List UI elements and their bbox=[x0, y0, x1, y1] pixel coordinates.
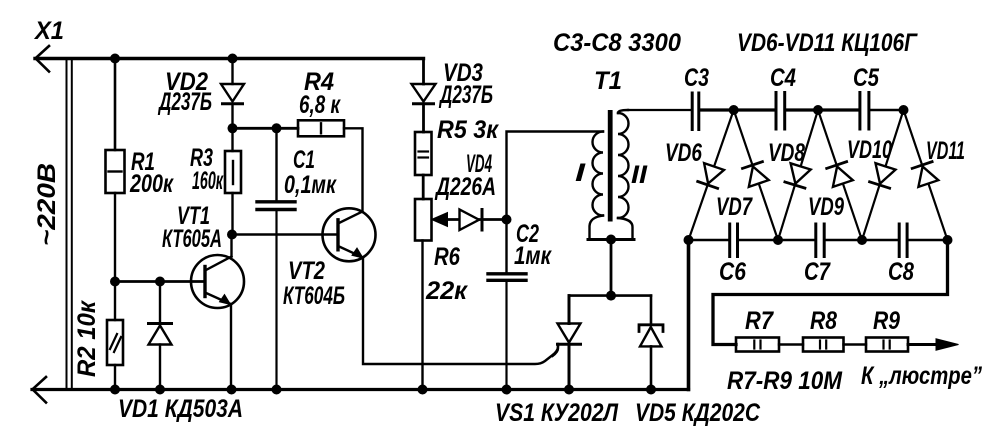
node VD1 top bbox=[155, 277, 165, 287]
svg-text:II: II bbox=[631, 161, 648, 189]
wire second rail bbox=[233, 127, 299, 130]
wire top rail bbox=[35, 57, 424, 60]
resistor R3 bbox=[225, 128, 241, 234]
capacitor C7 bbox=[816, 224, 824, 257]
wire bottom rail bbox=[32, 388, 689, 391]
svg-text:Д237Б: Д237Б bbox=[439, 81, 493, 109]
node A1 bbox=[729, 105, 739, 115]
wire output arrow bbox=[908, 343, 940, 346]
wire diagonal A2-B1 bbox=[778, 110, 818, 240]
diode VD9 bbox=[827, 162, 853, 187]
node R1-R2 bbox=[110, 277, 120, 287]
node rail VT1e bbox=[227, 385, 237, 395]
capacitor C2 bbox=[488, 220, 526, 390]
mains double line bbox=[66, 59, 68, 390]
svg-text:VD1 КД503А: VD1 КД503А bbox=[118, 395, 243, 423]
wire VT2 emitter to VS1 gate bbox=[363, 258, 558, 365]
node B2 bbox=[857, 235, 867, 245]
svg-text:С5: С5 bbox=[853, 64, 880, 92]
wire winding common bbox=[588, 238, 634, 241]
svg-text:VD10: VD10 bbox=[847, 136, 892, 164]
svg-text:VD11: VD11 bbox=[926, 137, 965, 165]
diode VD10 bbox=[870, 163, 896, 188]
svg-text:X1: X1 bbox=[33, 17, 64, 45]
transformer T1 core bbox=[608, 110, 613, 222]
svg-text:R7-R9 10М: R7-R9 10М bbox=[727, 367, 843, 395]
wire multiplier bottom rail bbox=[689, 239, 729, 241]
diode VD11 bbox=[912, 162, 938, 187]
diode VD2 bbox=[221, 59, 244, 129]
resistor R8 bbox=[803, 338, 844, 352]
capacitor C1 bbox=[257, 128, 295, 389]
transformer T1 winding II bbox=[618, 113, 629, 218]
diode VD4 bbox=[460, 210, 483, 231]
svg-text:0,1мк: 0,1мк bbox=[284, 171, 337, 199]
wire multiplier top rail bbox=[628, 109, 690, 111]
wire diagonal A2-B2 bbox=[818, 110, 862, 240]
node rail R2 bbox=[110, 385, 120, 395]
svg-text:С1: С1 bbox=[293, 146, 315, 174]
node C1 top bbox=[272, 123, 282, 133]
capacitor C8 bbox=[899, 224, 907, 257]
svg-text:VD6: VD6 bbox=[665, 139, 703, 167]
node rail C2 bbox=[502, 385, 512, 395]
node winding common bbox=[606, 235, 616, 245]
node rail VD5 bbox=[646, 385, 656, 395]
svg-text:С8: С8 bbox=[888, 258, 914, 286]
svg-text:VD7: VD7 bbox=[716, 193, 753, 221]
svg-text:R7: R7 bbox=[745, 307, 774, 335]
transistor VT1 bbox=[191, 235, 244, 390]
svg-text:К „люстре”: К „люстре” bbox=[861, 362, 982, 390]
node A3 bbox=[899, 105, 909, 115]
svg-text:VD5 КД202С: VD5 КД202С bbox=[635, 399, 761, 427]
svg-text:~220В: ~220В bbox=[33, 163, 61, 246]
svg-text:С7: С7 bbox=[804, 258, 831, 286]
node rail R6 bbox=[418, 385, 428, 395]
svg-text:R8: R8 bbox=[810, 307, 837, 335]
svg-text:R2 10к: R2 10к bbox=[73, 300, 101, 377]
svg-text:VD6-VD11 КЦ106Г: VD6-VD11 КЦ106Г bbox=[737, 29, 918, 57]
resistor R5 bbox=[415, 132, 432, 199]
wire diagonal A1-B0 bbox=[689, 110, 734, 240]
wire VT2 base bbox=[232, 233, 338, 236]
node top rail R1 bbox=[110, 54, 120, 64]
thyristor VS1 bbox=[553, 296, 581, 390]
capacitor C5 bbox=[860, 93, 869, 130]
svg-text:R9: R9 bbox=[873, 307, 900, 335]
svg-text:Д237Б: Д237Б bbox=[158, 88, 212, 116]
svg-text:КТ605А: КТ605А bbox=[162, 225, 222, 253]
node VS1 top bbox=[606, 291, 616, 301]
resistor R4 bbox=[298, 120, 363, 211]
node VD4-C2 bbox=[502, 215, 512, 225]
resistor R7 bbox=[736, 338, 779, 352]
diode VD1 bbox=[149, 282, 172, 390]
svg-text:VD9: VD9 bbox=[808, 193, 844, 221]
wire primary top bbox=[507, 132, 604, 220]
svg-text:С4: С4 bbox=[770, 64, 796, 92]
connector bottom arrow bbox=[33, 377, 47, 403]
node B1 bbox=[773, 235, 783, 245]
wire diagonal A3-B3 bbox=[904, 110, 948, 240]
wire multiplier left riser bbox=[687, 240, 691, 390]
node B3 bbox=[943, 235, 953, 245]
svg-text:КТ604Б: КТ604Б bbox=[283, 282, 345, 310]
diode VD5 bbox=[639, 296, 663, 390]
wire diagonal A3-B2 bbox=[862, 110, 904, 240]
svg-text:22к: 22к bbox=[425, 277, 468, 305]
diode VD6 bbox=[698, 163, 724, 188]
svg-text:6,8 к: 6,8 к bbox=[299, 91, 341, 119]
wire VT1 base bbox=[115, 280, 205, 283]
resistor R1 bbox=[106, 59, 125, 282]
diode VD7 bbox=[743, 162, 769, 187]
svg-text:1мк: 1мк bbox=[514, 242, 552, 270]
connector X1 top arrow bbox=[36, 46, 50, 72]
svg-text:160к: 160к bbox=[192, 167, 224, 195]
resistor R6 potentiometer bbox=[415, 199, 507, 390]
node rail VD1 bbox=[155, 385, 165, 395]
svg-text:С3: С3 bbox=[684, 64, 709, 92]
capacitor C6 bbox=[730, 224, 738, 257]
node top rail VD2 bbox=[228, 54, 238, 64]
node A2 bbox=[813, 105, 823, 115]
svg-text:VD8: VD8 bbox=[768, 139, 805, 167]
node VD2-R3 bbox=[228, 123, 238, 133]
svg-text:R5 3к: R5 3к bbox=[437, 116, 499, 144]
svg-text:200к: 200к bbox=[129, 170, 174, 198]
svg-text:Д226А: Д226А bbox=[434, 173, 496, 201]
svg-text:Т1: Т1 bbox=[594, 67, 622, 95]
transformer T1 winding I bbox=[593, 132, 604, 216]
diode VD3 bbox=[412, 59, 436, 133]
wire diagonal A1-B1 bbox=[734, 110, 778, 240]
svg-text:R6: R6 bbox=[434, 243, 461, 271]
capacitor C4 bbox=[776, 93, 785, 130]
node B0 bbox=[684, 235, 694, 245]
wire VS1 box top bbox=[569, 294, 651, 297]
wire R8-R9 bbox=[844, 343, 867, 345]
resistor R9 bbox=[866, 338, 908, 352]
transistor VT2 bbox=[323, 208, 376, 261]
svg-text:VS1 КУ202Л: VS1 КУ202Л bbox=[495, 399, 619, 427]
wire R7-R8 bbox=[779, 343, 803, 345]
capacitor C3 bbox=[692, 93, 699, 130]
node VT1 collector bbox=[227, 230, 237, 240]
svg-text:I: I bbox=[575, 159, 587, 187]
svg-text:С6: С6 bbox=[719, 258, 747, 286]
resistor R2 bbox=[107, 282, 123, 390]
node rail VS1 bbox=[564, 385, 574, 395]
diode VD8 bbox=[785, 163, 811, 188]
svg-text:VT2: VT2 bbox=[288, 257, 325, 285]
node rail C1 bbox=[272, 385, 282, 395]
wire output loop bbox=[713, 240, 948, 345]
svg-text:С3-С8 3300: С3-С8 3300 bbox=[553, 29, 681, 57]
